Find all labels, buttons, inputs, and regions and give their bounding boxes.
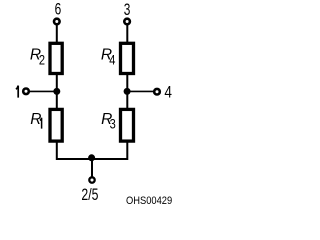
svg-text:4: 4 xyxy=(109,53,115,68)
terminal label 1 xyxy=(16,86,18,98)
terminal 2/5 xyxy=(89,177,94,182)
node junction at 1 xyxy=(53,88,60,95)
resistor R3 xyxy=(121,109,134,141)
wire xyxy=(56,74,58,109)
svg-text:3: 3 xyxy=(110,117,116,132)
svg-text:6: 6 xyxy=(55,1,62,20)
label R2 xyxy=(30,46,45,67)
terminal 1 xyxy=(23,89,29,95)
svg-text:2: 2 xyxy=(39,53,45,68)
resistor R2 xyxy=(50,43,62,73)
resistor R1 xyxy=(50,109,62,141)
terminal 4 xyxy=(154,89,160,95)
wire xyxy=(126,25,128,43)
terminal 6 xyxy=(54,19,60,25)
label R3 xyxy=(101,111,116,132)
wire xyxy=(29,90,57,92)
resistor R4 xyxy=(121,43,134,73)
svg-text:2/5: 2/5 xyxy=(81,186,98,204)
node junction at 2/5 xyxy=(88,154,95,161)
terminal 3 xyxy=(124,19,130,25)
wire xyxy=(91,158,93,177)
svg-text:R: R xyxy=(30,111,41,128)
label R1 xyxy=(30,111,41,129)
wire xyxy=(57,142,128,160)
wire xyxy=(127,90,154,92)
wire xyxy=(126,74,128,109)
wire xyxy=(56,25,58,43)
node junction at 4 xyxy=(124,88,131,95)
svg-text:3: 3 xyxy=(124,1,131,20)
label R4 xyxy=(101,46,116,67)
svg-text:OHS00429: OHS00429 xyxy=(126,195,172,207)
svg-text:4: 4 xyxy=(164,83,172,102)
